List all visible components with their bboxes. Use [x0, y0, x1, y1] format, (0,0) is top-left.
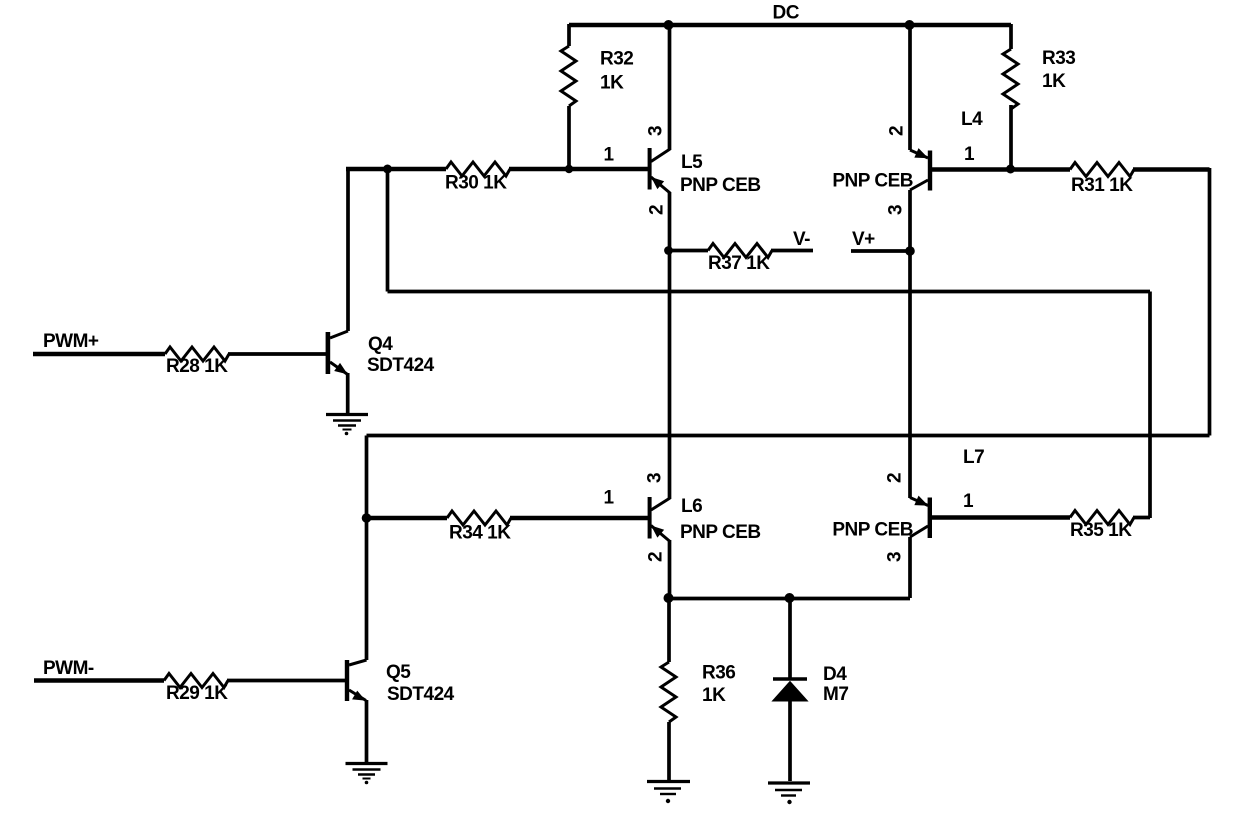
transistor L6 emitter diagonal [651, 526, 670, 542]
diode D4 [788, 598, 792, 679]
svg-text:1: 1 [603, 488, 614, 509]
wire right edge vertical [1208, 168, 1212, 436]
transistor L6 base bar [648, 497, 652, 539]
svg-text:2: 2 [647, 205, 668, 215]
svg-text:D4: D4 [823, 664, 847, 685]
transistor L7 base bar [928, 498, 932, 539]
svg-text:R35 1K: R35 1K [1070, 520, 1132, 541]
svg-text:L5: L5 [681, 152, 703, 173]
svg-text:PNP CEB: PNP CEB [832, 520, 913, 541]
wire L7 base [932, 515, 1070, 519]
transistor Q4 collector diagonal [330, 331, 348, 338]
junction V+ / right column [905, 246, 915, 256]
wire Q5 collector riser [365, 436, 369, 661]
transistor Q5 collector diagonal [349, 660, 367, 665]
wire top base net right segment [509, 167, 648, 171]
svg-text:R28 1K: R28 1K [166, 356, 228, 377]
svg-text:2: 2 [646, 552, 667, 562]
svg-text:3: 3 [645, 473, 666, 483]
wire L4 base to R31 [932, 167, 1070, 171]
wire cross-couple horizontal y=436 [367, 434, 1210, 438]
transistor L5 emitter arrow [652, 178, 663, 189]
wire R31 to right corner [1133, 167, 1210, 171]
ground under Q4 [326, 415, 368, 436]
svg-text:R33: R33 [1042, 48, 1075, 69]
svg-text:Q4: Q4 [368, 334, 393, 355]
wire L5 collector to DC [668, 25, 672, 150]
transistor Q4 base bar [326, 332, 331, 374]
wire L5 emitter down to L6 collector [668, 192, 672, 499]
wire L7 collector down [908, 537, 912, 598]
resistor R32 [567, 24, 571, 46]
junction on DC rail at L5 collector [664, 20, 674, 30]
transistor Q5 base bar [345, 660, 349, 701]
svg-text:R32: R32 [600, 49, 633, 70]
svg-text:3: 3 [646, 126, 667, 136]
svg-text:3: 3 [886, 205, 907, 215]
wire cross-couple down to R35 [1148, 292, 1152, 519]
transistor L4 base bar [928, 151, 932, 191]
resistor R37 [708, 244, 772, 258]
svg-text:3: 3 [885, 552, 906, 562]
svg-text:Q5: Q5 [386, 662, 411, 683]
transistor L5 emitter diagonal [651, 177, 670, 193]
svg-text:1K: 1K [702, 685, 726, 706]
wire L4 emitter to DC [908, 25, 912, 150]
transistor L5 collector diagonal [651, 149, 670, 162]
svg-text:PNP CEB: PNP CEB [832, 171, 913, 192]
transistor L7 emitter diagonal [910, 498, 928, 506]
svg-text:PNP CEB: PNP CEB [680, 522, 761, 543]
wire PWM- input [34, 678, 164, 682]
svg-text:1K: 1K [1042, 71, 1066, 92]
svg-text:R34 1K: R34 1K [449, 523, 511, 544]
ground under D4 [768, 783, 810, 804]
svg-text:1: 1 [603, 145, 614, 166]
svg-text:L7: L7 [963, 447, 984, 468]
transistor Q4 emitter arrow [335, 364, 347, 374]
wire cross-couple from Q4 net down [386, 169, 390, 292]
transistor L4 collector diagonal [910, 180, 928, 190]
wire R28 to Q4 base [228, 352, 326, 356]
wire R35 to cross-couple [1133, 516, 1150, 520]
wire L4 collector down to L7 emitter [908, 190, 912, 498]
resistor R31 [1070, 163, 1134, 177]
svg-text:DC: DC [773, 3, 800, 24]
svg-text:R36: R36 [702, 663, 735, 684]
junction R33 tap [1006, 165, 1015, 174]
wire PWM+ input [33, 352, 165, 356]
svg-text:L6: L6 [681, 496, 702, 517]
svg-text:1: 1 [963, 491, 974, 512]
junction R32/base wire [565, 165, 573, 173]
svg-text:L4: L4 [961, 109, 983, 130]
svg-text:2: 2 [887, 126, 908, 136]
wire R37 to V- [771, 249, 813, 253]
wire R34 left segment [367, 516, 448, 520]
svg-text:PWM+: PWM+ [43, 331, 99, 352]
svg-text:R30 1K: R30 1K [445, 173, 507, 194]
resistor R35 [1070, 511, 1134, 525]
wire L6 emitter down [668, 540, 672, 598]
wire DC rail [569, 23, 1011, 27]
svg-text:V-: V- [793, 229, 810, 250]
svg-text:1K: 1K [600, 73, 624, 94]
transistor L7 emitter arrow [915, 497, 927, 506]
resistor R34 [447, 511, 511, 525]
wire Q5 emitter to ground [365, 700, 369, 763]
resistor R36 [667, 598, 671, 662]
wire top base net left segment [346, 167, 446, 171]
svg-text:R29 1K: R29 1K [166, 683, 228, 704]
svg-text:SDT424: SDT424 [387, 684, 455, 705]
junction D4 tap [785, 593, 795, 603]
junction L6 emitter / bottom wire [664, 593, 674, 603]
transistor Q5 emitter arrow [353, 692, 365, 701]
wire Q4 collector riser [346, 169, 350, 331]
svg-text:R31 1K: R31 1K [1071, 175, 1133, 196]
junction cross-couple tap [383, 165, 392, 174]
wire V+ stub [851, 249, 911, 253]
transistor L7 collector diagonal [910, 526, 928, 537]
resistor R29 [164, 674, 228, 688]
svg-text:V+: V+ [852, 229, 875, 250]
wire cross-couple horizontal y=291 [388, 290, 1151, 294]
svg-text:PNP CEB: PNP CEB [680, 175, 761, 196]
wire Q4 emitter to ground [346, 373, 350, 413]
transistor L5 base bar [648, 148, 652, 190]
wire R29 to Q5 base [227, 679, 345, 683]
transistor Q4 emitter diagonal [330, 362, 347, 374]
svg-text:1: 1 [964, 144, 975, 165]
svg-text:SDT424: SDT424 [367, 355, 435, 376]
transistor L4 emitter diagonal [910, 150, 928, 158]
junction L5 emitter / R37 [664, 246, 673, 255]
wire bottom output [668, 597, 910, 601]
wire R34 to L6 base [510, 516, 648, 520]
wire to R37 [668, 249, 708, 253]
ground under Q5 [346, 764, 388, 785]
ground under R36 [647, 782, 690, 804]
resistor R28 [165, 347, 229, 361]
junction R34 tap [362, 513, 372, 523]
svg-text:M7: M7 [823, 684, 848, 705]
transistor Q5 emitter diagonal [349, 690, 366, 701]
transistor L4 emitter arrow [915, 149, 927, 158]
transistor L6 emitter arrow [652, 526, 663, 537]
transistor L6 collector diagonal [651, 498, 670, 510]
svg-text:R37 1K: R37 1K [708, 253, 770, 274]
resistor R30 [446, 162, 510, 176]
svg-text:PWM-: PWM- [43, 658, 94, 679]
junction on DC rail at L4 emitter [905, 20, 915, 30]
resistor R33 [1009, 24, 1013, 49]
svg-text:2: 2 [885, 473, 906, 483]
